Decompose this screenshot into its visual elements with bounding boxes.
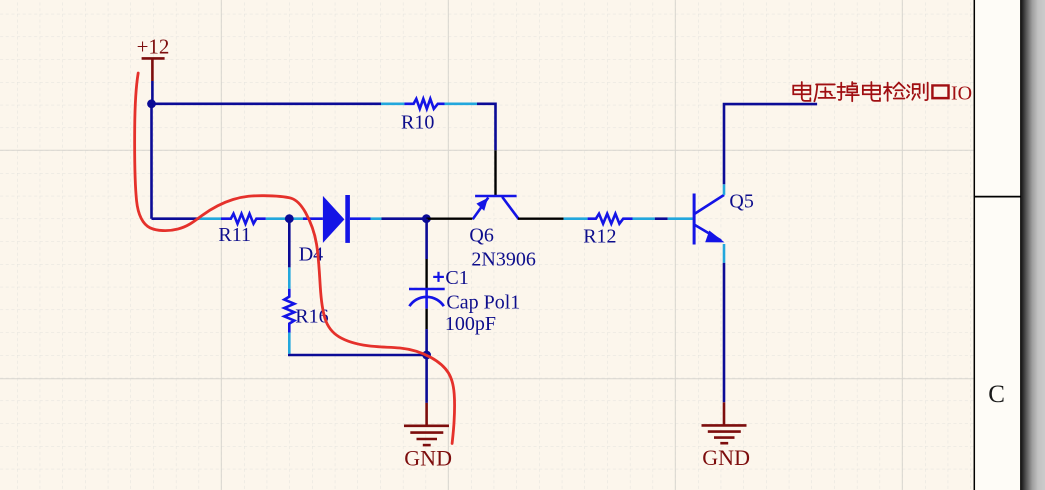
wire navy Q5 collector up and to the right: [724, 104, 817, 184]
wire cyan left of R11: [199, 217, 221, 220]
pin Q6 emitter (black): [426, 217, 472, 219]
测: [907, 83, 928, 101]
wire cyan to Q5 base: [668, 217, 693, 220]
svg-text:C: C: [988, 381, 1005, 408]
junction R11/D4/R16 node: [285, 214, 294, 223]
pin C1 bottom (black): [425, 309, 427, 329]
wire vertical from +12 node down to R11 line: [150, 104, 153, 219]
pin Q6 collector (black): [518, 217, 564, 219]
junction at +12 node: [147, 99, 156, 108]
wire cyan right of R12: [633, 217, 655, 220]
svg-text:R10: R10: [401, 112, 434, 134]
pin C1 top (black): [425, 259, 427, 288]
wire top horizontal to corner and down to Q6: [477, 104, 496, 151]
svg-text:+12: +12: [137, 35, 170, 59]
wire top horizontal left segment: [152, 103, 382, 106]
wire cyan Q5 emitter: [723, 244, 726, 263]
C1 plus sign: [433, 272, 444, 282]
wire cyan left of R12: [564, 217, 588, 220]
svg-text:Cap Pol1: Cap Pol1: [446, 292, 520, 314]
diode D4 body: [323, 195, 350, 243]
wire cyan right of R10: [445, 103, 478, 106]
svg-text:R12: R12: [583, 226, 616, 248]
检: [884, 83, 905, 101]
wire cyan right of D4: [371, 217, 382, 220]
resistor R16 branch: navy from junction down: [288, 219, 291, 268]
svg-text:C1: C1: [445, 267, 468, 289]
svg-text:Q6: Q6: [469, 225, 493, 247]
wire navy to C1 node: [382, 217, 427, 220]
口: [932, 85, 948, 98]
wire cyan below R16: [288, 333, 291, 354]
掉: [838, 82, 859, 101]
svg-text:GND: GND: [702, 445, 750, 470]
capacitor C1 plates: [409, 289, 445, 309]
wire bottom horizontal R16 to C1 node: [289, 354, 426, 355]
net label 电压掉电检测口IO (hand-drawn CJK glyphs): [793, 82, 948, 101]
wire C1 bottom navy: [425, 329, 428, 355]
sheet border inner line: [973, 0, 975, 490]
ground GND left: [404, 403, 449, 445]
wire cyan Q5 collector: [723, 184, 726, 195]
svg-text:100pF: 100pF: [445, 313, 496, 335]
wire bottom node to GND: [425, 355, 428, 403]
svg-text:Q5: Q5: [729, 191, 753, 213]
red freehand annotation stroke: [135, 73, 455, 444]
wire navy Q5 emitter to GND: [723, 263, 726, 402]
sheet margin gray shadow: [1022, 0, 1045, 490]
电: [863, 82, 880, 101]
wire +12 vertical stub: [151, 81, 154, 104]
Q5 emitter arrow: [705, 231, 724, 243]
wire cyan left of R10: [381, 103, 404, 106]
pin Q6 base (black): [494, 150, 496, 195]
capacitor C1 branch: navy below junction: [425, 219, 428, 259]
wire R11 line navy left: [152, 217, 200, 220]
junction C1/Q6 node: [422, 214, 431, 223]
svg-text:IO: IO: [951, 82, 972, 104]
zone divider tick: [974, 196, 1021, 198]
svg-text:2N3906: 2N3906: [471, 249, 535, 271]
wire navy dash on Q5 base: [655, 217, 668, 220]
Q6 emitter arrow: [476, 198, 488, 211]
压: [814, 84, 835, 101]
resistor R16: [284, 289, 294, 333]
transistor Q6 2N3906: [473, 196, 519, 219]
resistor R10: [404, 99, 444, 109]
diode D4 cathode pin: [350, 217, 371, 220]
wire cyan above R16: [288, 267, 291, 288]
wire cyan right of R11: [266, 217, 303, 220]
transistor Q5: [694, 194, 724, 245]
电: [793, 82, 810, 101]
diode D4 anode pin: [303, 217, 323, 220]
svg-text:R11: R11: [218, 224, 251, 246]
junction bottom node: [422, 351, 431, 360]
power symbol +12: [142, 58, 165, 81]
ground GND right: [702, 402, 747, 443]
sheet border strip: [975, 0, 1020, 490]
sheet border outer line: [1020, 0, 1022, 490]
resistor R11: [221, 214, 266, 224]
svg-text:GND: GND: [404, 446, 452, 471]
resistor R12: [588, 214, 633, 224]
